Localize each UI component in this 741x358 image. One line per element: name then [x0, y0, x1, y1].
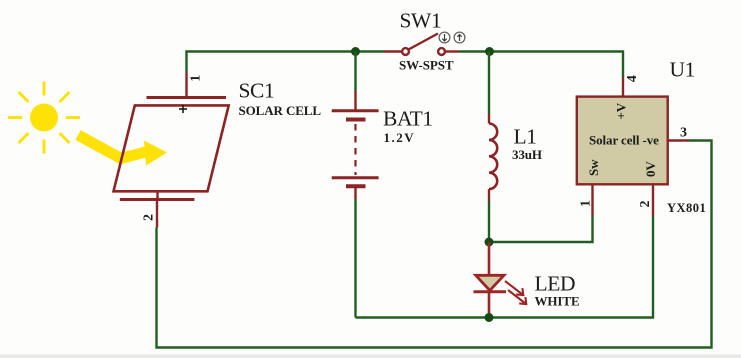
svg-text:WHITE: WHITE	[535, 294, 580, 309]
svg-text:3: 3	[680, 126, 687, 141]
svg-text:1: 1	[189, 75, 204, 82]
wire L1 top	[488, 52, 490, 114]
wire BAT1 bottom	[354, 199, 356, 318]
svg-text:BAT1: BAT1	[383, 107, 433, 131]
junction above BAT1	[351, 47, 360, 56]
junction LED bottom	[485, 313, 494, 322]
svg-text:L1: L1	[514, 125, 537, 149]
inductor L1	[489, 114, 497, 202]
svg-text:SOLAR CELL: SOLAR CELL	[239, 103, 322, 118]
wire U1 pin1 to L1/LED node	[489, 216, 593, 242]
svg-text:33uH: 33uH	[512, 147, 542, 162]
svg-text:SW1: SW1	[400, 9, 442, 33]
svg-text:2: 2	[141, 214, 156, 221]
wire switch to U1 pin4	[459, 52, 623, 78]
svg-text:U1: U1	[670, 58, 695, 82]
wire B: SC1 pin2 to U1 pin3	[157, 141, 712, 348]
junction L1/LED/pin1	[485, 238, 494, 247]
LED light arrows	[505, 281, 526, 304]
svg-text:1.2V: 1.2V	[384, 130, 416, 145]
solar cell SC1	[114, 72, 229, 228]
svg-text:Sw: Sw	[586, 159, 601, 176]
wire L1 bottom	[488, 201, 490, 242]
IC U1 YX801	[577, 78, 689, 217]
junction above L1	[485, 47, 494, 56]
LED D1	[474, 242, 507, 318]
wire top from SC1 pin1 to switch	[187, 52, 385, 73]
svg-text:YX801: YX801	[667, 201, 706, 215]
svg-text:0V: 0V	[643, 161, 658, 177]
switch SW1	[384, 34, 459, 55]
faint bottom screenshot edge	[0, 355, 741, 358]
svg-text:LED: LED	[535, 272, 576, 296]
light arrow	[78, 135, 167, 166]
battery BAT1	[332, 91, 379, 199]
wire BAT1 top	[354, 52, 356, 92]
svg-text:SW-SPST: SW-SPST	[399, 58, 454, 73]
svg-text:Solar cell -ve: Solar cell -ve	[589, 133, 659, 148]
sun	[8, 82, 80, 154]
svg-text:2: 2	[638, 201, 653, 208]
svg-text:4: 4	[625, 75, 640, 82]
svg-text:SC1: SC1	[239, 79, 275, 103]
svg-text:1: 1	[579, 200, 594, 207]
wire A: BAT1 bottom to U1 pin2	[356, 216, 654, 318]
svg-text:+V: +V	[614, 102, 629, 119]
SC1 plus mark	[179, 105, 187, 113]
switch toggle actuator icons	[439, 32, 465, 43]
